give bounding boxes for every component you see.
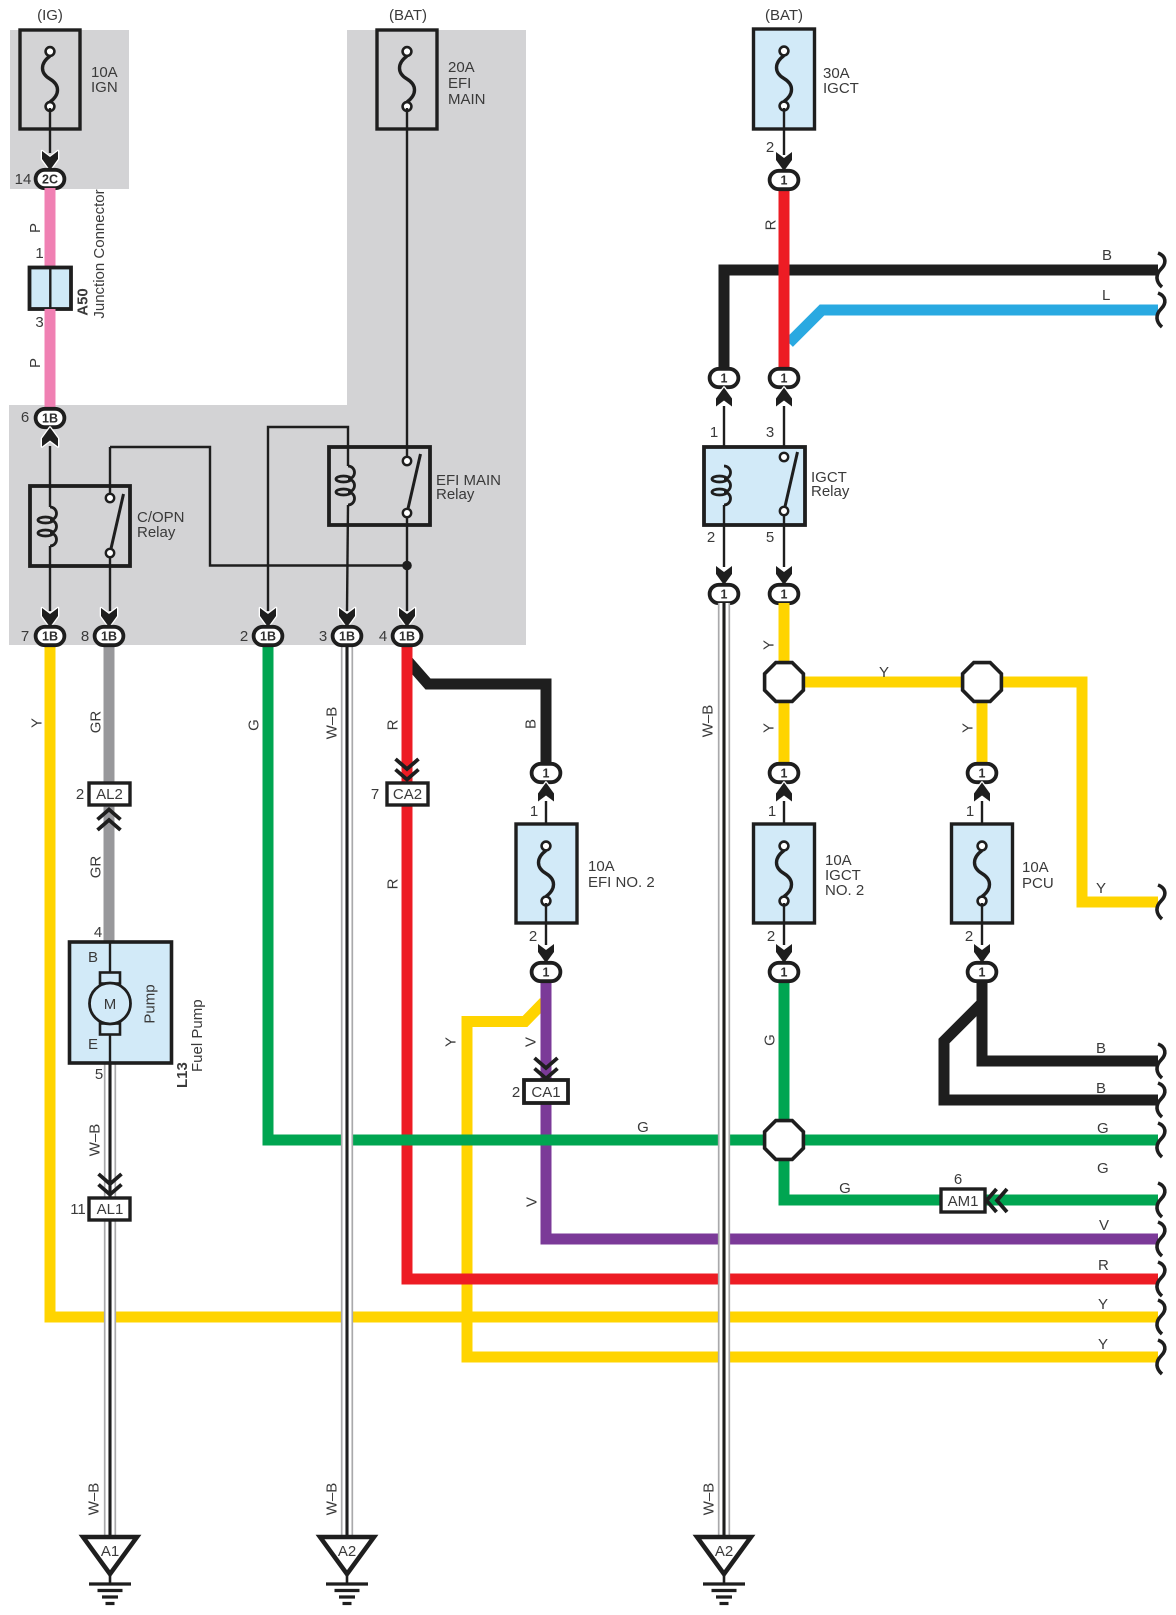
- wire G green from IGCT NO.2 fuse down: [779, 981, 790, 1140]
- svg-text:G: G: [839, 1180, 851, 1197]
- svg-text:1B: 1B: [399, 630, 415, 644]
- svg-text:AM1: AM1: [948, 1193, 979, 1210]
- junction dot: [402, 561, 412, 571]
- svg-text:1: 1: [710, 424, 718, 441]
- svg-text:Pump: Pump: [142, 984, 159, 1023]
- svg-text:W–B: W–B: [324, 707, 341, 740]
- svg-text:Y: Y: [1098, 1296, 1108, 1313]
- svg-text:IGCT: IGCT: [823, 80, 859, 97]
- connector 1B pin 3: [333, 627, 362, 645]
- svg-text:AL2: AL2: [96, 786, 123, 803]
- svg-text:R: R: [385, 719, 402, 730]
- wire Y yellow octagon to PCU fuse: [977, 682, 988, 764]
- svg-text:2: 2: [707, 529, 715, 546]
- svg-text:Relay: Relay: [811, 483, 850, 500]
- wire P pink lower: [45, 309, 56, 409]
- svg-text:Junction Connector: Junction Connector: [91, 189, 108, 318]
- wire R red from pin 4 to right edge: [407, 645, 1158, 1279]
- junction block shading middle column: [347, 30, 526, 408]
- svg-text:AL1: AL1: [97, 1201, 124, 1218]
- svg-text:1: 1: [781, 767, 788, 781]
- svg-text:Y: Y: [1096, 880, 1106, 897]
- EFI MAIN relay: [268, 427, 501, 611]
- svg-text:10A: 10A: [1022, 859, 1049, 876]
- svg-text:1: 1: [781, 174, 788, 188]
- wire G green main from pin 2 to right edge: [268, 645, 1158, 1140]
- svg-text:IGN: IGN: [91, 79, 118, 96]
- svg-text:2: 2: [240, 628, 248, 645]
- wire B black PCU lower branch: [944, 995, 1158, 1100]
- svg-text:MAIN: MAIN: [448, 91, 486, 108]
- svg-text:A2: A2: [338, 1543, 356, 1560]
- svg-text:2: 2: [529, 928, 537, 945]
- svg-text:6: 6: [21, 409, 29, 426]
- svg-text:V: V: [1099, 1217, 1109, 1234]
- svg-text:2: 2: [512, 1084, 520, 1101]
- fuse 10A IGN: [20, 30, 80, 129]
- svg-text:1B: 1B: [260, 630, 276, 644]
- svg-text:R: R: [763, 219, 780, 230]
- svg-text:V: V: [523, 1037, 540, 1047]
- svg-text:P: P: [27, 223, 44, 233]
- svg-text:1B: 1B: [339, 630, 355, 644]
- svg-text:GR: GR: [88, 856, 105, 879]
- svg-text:5: 5: [95, 1066, 103, 1083]
- fuse 10A PCU: [968, 764, 997, 782]
- svg-text:CA2: CA2: [393, 786, 422, 803]
- svg-text:M: M: [104, 996, 117, 1013]
- svg-text:2: 2: [76, 786, 84, 803]
- connector 2C pin 14: [36, 170, 65, 188]
- svg-text:G: G: [637, 1119, 649, 1136]
- svg-text:G: G: [1097, 1120, 1109, 1137]
- svg-text:5: 5: [766, 529, 774, 546]
- wire B black branch to EFI NO.2: [407, 648, 546, 764]
- svg-text:B: B: [1102, 247, 1112, 264]
- connectors 1 above IGCT relay: [710, 369, 739, 387]
- wire W-B from fuel pump to ground A1: [105, 1063, 116, 1537]
- svg-text:Relay: Relay: [137, 524, 176, 541]
- svg-text:CA1: CA1: [531, 1084, 560, 1101]
- svg-text:1: 1: [781, 372, 788, 386]
- svg-text:Relay: Relay: [436, 486, 475, 503]
- svg-text:Y: Y: [761, 640, 778, 650]
- svg-text:3: 3: [319, 628, 327, 645]
- connector 1B pin 6: [36, 409, 65, 427]
- svg-text:4: 4: [379, 628, 387, 645]
- connectors 1 below IGCT relay: [710, 585, 739, 603]
- connector CA2 pin 7: [396, 759, 419, 780]
- wire C/OPN switch to EFI relay output: [110, 447, 405, 566]
- connector CA1 pin 2: [535, 1058, 558, 1079]
- connector AL2 pin 2: [89, 783, 130, 805]
- svg-text:1: 1: [35, 245, 43, 262]
- svg-text:(IG): (IG): [37, 7, 63, 24]
- wire Y yellow joining V wire: [467, 1002, 1158, 1357]
- ground A2 right: [697, 1537, 751, 1604]
- junction block shading top-left: [10, 30, 129, 189]
- svg-text:Y: Y: [443, 1037, 460, 1047]
- svg-text:B: B: [1096, 1040, 1106, 1057]
- svg-text:V: V: [524, 1197, 541, 1207]
- svg-text:1: 1: [768, 803, 776, 820]
- wire Y yellow from C/OPN pin 7 to right edge: [50, 645, 1158, 1317]
- svg-text:2: 2: [766, 139, 774, 156]
- wire G green splice to AM1 and right edge: [784, 1140, 1158, 1200]
- svg-text:1: 1: [721, 588, 728, 602]
- svg-text:B: B: [88, 949, 98, 966]
- svg-text:1: 1: [530, 803, 538, 820]
- wire L blue to right edge: [789, 310, 1158, 343]
- wire GR gray from pin 8 to fuel pump: [104, 645, 115, 943]
- svg-text:1: 1: [543, 767, 550, 781]
- svg-text:1: 1: [966, 803, 974, 820]
- pins 1 and 3: [723, 406, 725, 470]
- svg-text:Fuel Pump: Fuel Pump: [189, 999, 206, 1072]
- svg-text:1B: 1B: [42, 412, 58, 426]
- svg-text:(BAT): (BAT): [765, 7, 803, 24]
- svg-text:1: 1: [979, 767, 986, 781]
- wire B black to right edge: [724, 270, 1158, 369]
- svg-text:1: 1: [781, 588, 788, 602]
- octagon splice green: [765, 1121, 804, 1160]
- octagon splice yellow left: [765, 663, 804, 702]
- svg-text:G: G: [1097, 1160, 1109, 1177]
- svg-text:G: G: [762, 1034, 779, 1046]
- svg-text:EFI: EFI: [448, 75, 471, 92]
- wire IGCT fuse pin 2: [783, 108, 785, 155]
- svg-text:Y: Y: [960, 723, 977, 733]
- svg-text:A2: A2: [715, 1543, 733, 1560]
- wire fuse IGN to connector 2C: [49, 108, 51, 153]
- connector 1B pin 8: [95, 627, 124, 645]
- fuel pump L13: [70, 942, 207, 1088]
- wire W-B from IGCT relay pin 2 to ground A2: [719, 603, 730, 1537]
- svg-text:Y: Y: [761, 723, 778, 733]
- fuse 10A EFI NO.2: [532, 764, 561, 782]
- svg-text:Y: Y: [1098, 1336, 1108, 1353]
- wire V violet from EFI NO.2 to right edge: [546, 981, 1158, 1239]
- svg-text:1: 1: [721, 372, 728, 386]
- svg-text:R: R: [1098, 1257, 1109, 1274]
- connector 1 above IGCT fuse: [770, 171, 799, 189]
- svg-text:P: P: [27, 358, 44, 368]
- svg-text:PCU: PCU: [1022, 875, 1054, 892]
- wire R red from fuse to relay: [779, 189, 790, 369]
- svg-text:1: 1: [781, 966, 788, 980]
- IGCT relay: [704, 447, 850, 567]
- svg-text:7: 7: [371, 786, 379, 803]
- connector AM1 pin 6: [941, 1189, 985, 1212]
- svg-text:W–B: W–B: [701, 1483, 718, 1516]
- svg-text:2: 2: [965, 928, 973, 945]
- svg-text:W–B: W–B: [87, 1124, 104, 1157]
- C/OPN relay: [30, 447, 185, 611]
- svg-text:3: 3: [766, 424, 774, 441]
- svg-text:B: B: [523, 719, 540, 729]
- svg-text:11: 11: [70, 1201, 86, 1218]
- fuse 20A EFI MAIN: [377, 30, 437, 129]
- junction block shading main: [9, 405, 526, 645]
- svg-text:10A: 10A: [588, 858, 615, 875]
- fuse 10A IGCT NO.2: [770, 764, 799, 782]
- octagon splice yellow right: [963, 663, 1002, 702]
- wire B black PCU upper branch: [982, 981, 1158, 1061]
- junction connector A50: [30, 189, 109, 318]
- svg-text:E: E: [88, 1036, 98, 1053]
- svg-text:A1: A1: [101, 1543, 119, 1560]
- svg-text:NO. 2: NO. 2: [825, 882, 864, 899]
- svg-text:A50: A50: [75, 288, 92, 316]
- svg-text:1B: 1B: [42, 630, 58, 644]
- svg-text:4: 4: [94, 924, 102, 941]
- svg-text:W–B: W–B: [86, 1483, 103, 1516]
- svg-text:2: 2: [767, 928, 775, 945]
- svg-text:1: 1: [543, 966, 550, 980]
- connector 1B pin 7: [36, 627, 65, 645]
- arrows into 1B row: [42, 608, 58, 627]
- svg-text:(BAT): (BAT): [389, 7, 427, 24]
- wire P pink upper: [45, 188, 56, 269]
- wire W-B from pin 3 to ground A2: [342, 645, 353, 1537]
- svg-text:2C: 2C: [42, 173, 58, 187]
- connector AL1 pin 11: [99, 1174, 122, 1195]
- svg-text:7: 7: [21, 628, 29, 645]
- svg-text:3: 3: [35, 314, 43, 331]
- wire Y yellow IGCT relay to octagon splices and right edge: [779, 603, 790, 764]
- svg-text:20A: 20A: [448, 59, 475, 76]
- svg-text:1: 1: [979, 966, 986, 980]
- svg-text:14: 14: [15, 171, 32, 188]
- svg-text:W–B: W–B: [700, 705, 717, 738]
- svg-text:6: 6: [954, 1171, 962, 1188]
- ground A1: [83, 1537, 137, 1604]
- ground A2 left: [320, 1537, 374, 1604]
- svg-text:W–B: W–B: [324, 1483, 341, 1516]
- svg-text:B: B: [1096, 1080, 1106, 1097]
- svg-text:Y: Y: [879, 664, 889, 681]
- connector 1B pin 2: [254, 627, 283, 645]
- svg-text:G: G: [246, 719, 263, 731]
- svg-text:Y: Y: [29, 718, 46, 728]
- svg-text:R: R: [385, 878, 402, 889]
- wire EFI MAIN fuse to relay switch: [406, 108, 408, 458]
- continuation marks right edge: [1157, 253, 1165, 287]
- svg-text:8: 8: [81, 628, 89, 645]
- wire to C/OPN relay coil: [49, 446, 51, 507]
- connector 1B pin 4: [393, 627, 422, 645]
- svg-text:1B: 1B: [101, 630, 117, 644]
- svg-text:L: L: [1102, 287, 1110, 304]
- svg-text:GR: GR: [88, 711, 105, 734]
- svg-text:EFI NO. 2: EFI NO. 2: [588, 874, 655, 891]
- fuse 30A IGCT: [754, 29, 815, 129]
